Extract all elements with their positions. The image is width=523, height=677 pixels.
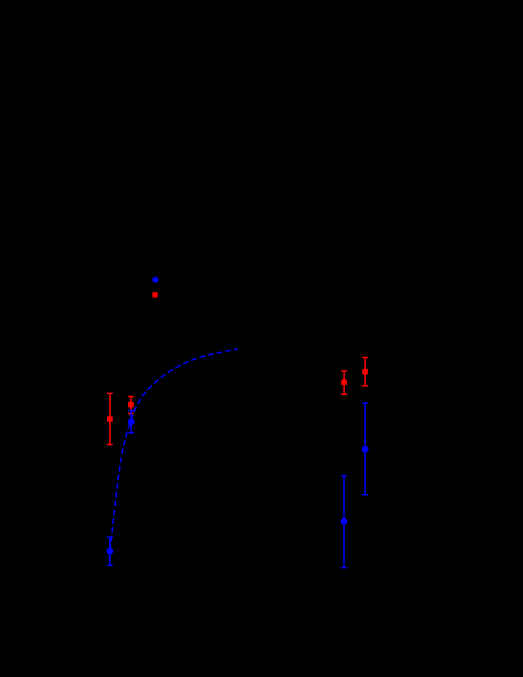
- model curve: blue dashed line: [109, 349, 237, 559]
- red square R1: [107, 416, 113, 422]
- blue circle B2: [107, 548, 114, 555]
- legend marker: blue circle: [152, 277, 158, 283]
- red square R4: [362, 369, 368, 375]
- error bar: blue point B3: [362, 403, 368, 495]
- error bar: red point R1: [107, 393, 113, 444]
- error bar: blue point B4: [341, 476, 347, 568]
- blue circle B4: [341, 518, 348, 525]
- error bar: red point R4: [362, 358, 368, 386]
- error bar: red point R2: [128, 397, 134, 414]
- error bar: blue point B2: [107, 537, 113, 565]
- error bar: red point R3: [341, 371, 347, 394]
- red square R3: [341, 380, 347, 386]
- legend marker: red square: [152, 292, 157, 297]
- blue circle B3: [362, 446, 369, 453]
- red square R2: [128, 402, 134, 408]
- error bar: blue point B1: [128, 411, 134, 433]
- blue circle B1: [128, 418, 135, 425]
